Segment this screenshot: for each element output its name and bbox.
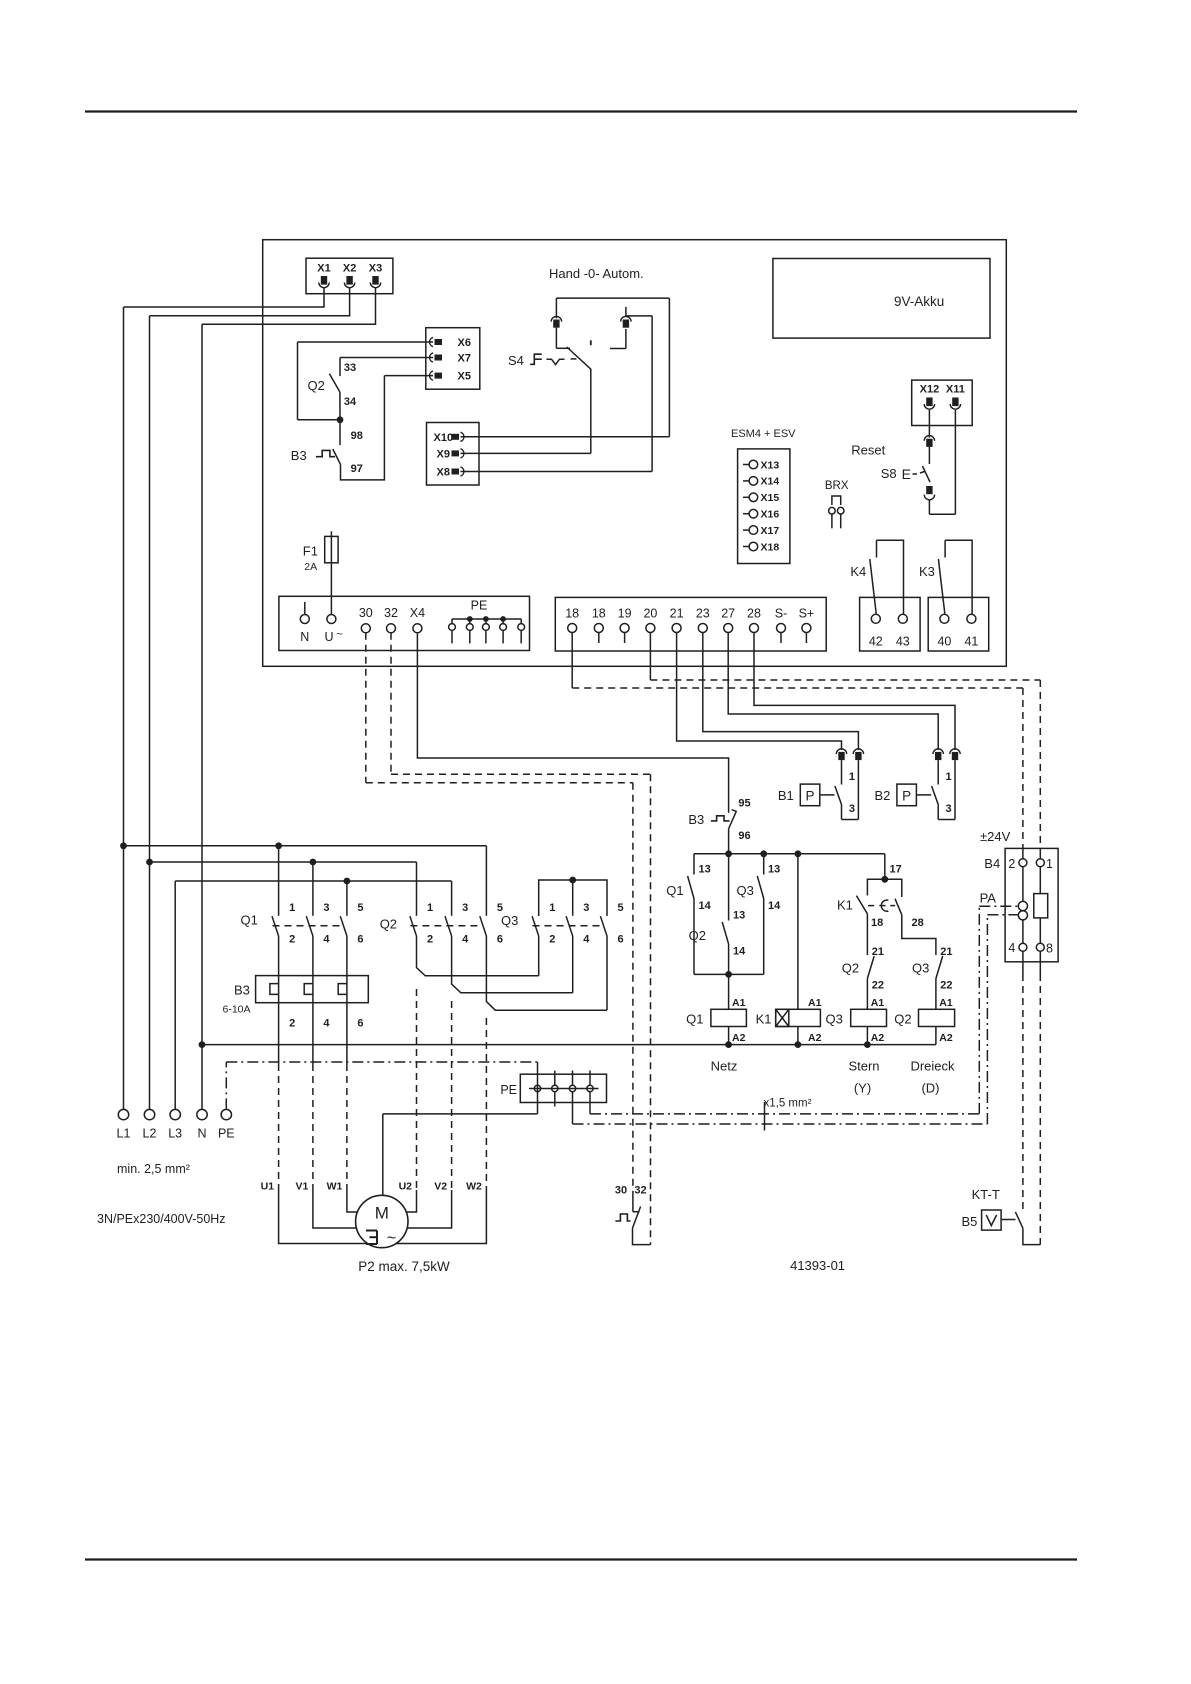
svg-text:ESM4 + ESV: ESM4 + ESV [731,428,796,440]
svg-text:X3: X3 [369,263,382,275]
svg-text:27: 27 [721,607,735,621]
svg-text:B3: B3 [234,983,250,998]
svg-text:S4: S4 [508,353,524,368]
svg-text:4: 4 [583,934,590,946]
svg-text:(D): (D) [921,1081,939,1096]
svg-text:21: 21 [670,607,684,621]
svg-text:K4: K4 [850,564,866,579]
svg-text:A1: A1 [732,997,746,1009]
svg-text:6: 6 [497,934,503,946]
svg-text:PA: PA [980,891,997,906]
svg-text:14: 14 [699,900,712,912]
svg-text:6: 6 [618,934,624,946]
svg-text:Q3: Q3 [912,961,929,976]
svg-text:13: 13 [699,864,711,876]
svg-text:34: 34 [344,396,357,408]
svg-text:2A: 2A [304,561,317,573]
svg-text:Q2: Q2 [689,928,706,943]
svg-text:18: 18 [565,607,579,621]
svg-text:43: 43 [896,635,910,649]
svg-text:K1: K1 [837,898,853,913]
svg-text:Q1: Q1 [686,1012,703,1027]
svg-text:9V-Akku: 9V-Akku [894,294,944,309]
svg-text:X9: X9 [437,448,450,460]
svg-text:B1: B1 [778,788,794,803]
svg-text:M: M [375,1204,389,1223]
svg-text:42: 42 [869,635,883,649]
svg-text:(Y): (Y) [854,1081,871,1096]
svg-text:4: 4 [323,1018,330,1030]
svg-text:3: 3 [462,902,468,914]
svg-text:A1: A1 [871,997,885,1009]
svg-text:28: 28 [747,607,761,621]
svg-text:W1: W1 [327,1181,343,1193]
svg-text:Hand -0- Autom.: Hand -0- Autom. [549,266,644,281]
svg-text:X13: X13 [761,459,780,471]
svg-text:95: 95 [738,798,750,810]
svg-text:PE: PE [471,599,488,613]
svg-text:~: ~ [336,629,342,641]
svg-text:X10: X10 [434,432,454,444]
svg-text:P2 max. 7,5kW: P2 max. 7,5kW [358,1259,450,1274]
svg-text:KT-T: KT-T [972,1187,1000,1202]
svg-text:P: P [902,789,911,804]
svg-text:X18: X18 [761,541,780,553]
svg-text:4: 4 [1008,941,1015,955]
svg-text:1: 1 [549,902,555,914]
svg-text:~: ~ [387,1230,396,1247]
svg-text:1: 1 [849,771,855,783]
svg-text:X1: X1 [317,263,330,275]
svg-text:X15: X15 [761,492,780,504]
svg-text:14: 14 [768,900,781,912]
svg-text:±24V: ±24V [980,829,1011,844]
svg-text:PE: PE [500,1083,517,1097]
svg-text:2: 2 [427,934,433,946]
svg-text:N: N [197,1127,206,1141]
svg-text:B5: B5 [962,1214,978,1229]
svg-text:X6: X6 [458,337,471,349]
svg-text:6: 6 [357,1018,363,1030]
svg-text:K3: K3 [919,564,935,579]
svg-text:U: U [324,630,333,644]
svg-text:Q3: Q3 [826,1012,843,1027]
svg-text:Q2: Q2 [894,1012,911,1027]
svg-text:8: 8 [1046,942,1053,956]
svg-text:2: 2 [289,1018,295,1030]
svg-text:B2: B2 [875,788,891,803]
svg-text:x1,5 mm²: x1,5 mm² [764,1098,812,1110]
svg-text:3: 3 [946,803,952,815]
svg-text:Q2: Q2 [380,917,397,932]
svg-text:1: 1 [1046,857,1053,871]
svg-text:Reset: Reset [851,443,885,458]
svg-text:A2: A2 [732,1032,746,1044]
svg-text:Q2: Q2 [308,378,325,393]
svg-text:13: 13 [733,910,745,922]
svg-text:Dreieck: Dreieck [910,1059,955,1074]
svg-text:20: 20 [643,607,657,621]
svg-text:22: 22 [940,980,952,992]
svg-text:22: 22 [872,980,884,992]
svg-text:BRX: BRX [825,480,849,492]
svg-text:2: 2 [289,934,295,946]
svg-text:V1: V1 [296,1181,309,1193]
svg-text:40: 40 [937,635,951,649]
svg-text:A1: A1 [939,997,953,1009]
svg-text:X11: X11 [946,384,965,396]
svg-text:6: 6 [357,934,363,946]
svg-text:18: 18 [871,917,883,929]
svg-text:33: 33 [344,362,356,374]
svg-text:PE: PE [218,1127,235,1141]
svg-text:B4: B4 [984,856,1000,871]
svg-text:S8: S8 [881,466,897,481]
svg-text:21: 21 [872,946,884,958]
svg-text:X17: X17 [761,525,780,537]
svg-text:S-: S- [775,607,788,621]
svg-text:2: 2 [1008,857,1015,871]
svg-text:Q1: Q1 [666,883,683,898]
svg-text:30: 30 [359,606,373,620]
svg-text:L1: L1 [117,1127,131,1141]
svg-text:17: 17 [890,864,902,876]
svg-text:21: 21 [940,946,952,958]
svg-text:S+: S+ [799,607,815,621]
svg-text:1: 1 [946,771,952,783]
svg-text:Netz: Netz [711,1059,738,1074]
svg-text:32: 32 [634,1185,646,1197]
svg-text:13: 13 [768,864,780,876]
svg-text:X12: X12 [920,384,940,396]
svg-text:19: 19 [618,607,632,621]
svg-text:98: 98 [351,430,363,442]
svg-text:L3: L3 [168,1127,182,1141]
svg-text:96: 96 [738,830,750,842]
svg-text:B3: B3 [688,812,704,827]
svg-text:X14: X14 [761,476,780,488]
svg-text:X7: X7 [458,353,471,365]
svg-text:Stern: Stern [848,1059,879,1074]
svg-text:6-10A: 6-10A [223,1004,251,1016]
svg-text:3: 3 [323,902,329,914]
svg-text:1: 1 [289,902,295,914]
svg-text:2: 2 [549,934,555,946]
svg-text:23: 23 [696,607,710,621]
svg-text:X16: X16 [761,509,780,521]
svg-text:3: 3 [849,803,855,815]
svg-text:min. 2,5 mm²: min. 2,5 mm² [117,1162,190,1176]
svg-text:X8: X8 [437,467,450,479]
svg-text:4: 4 [323,934,330,946]
svg-text:30: 30 [615,1185,627,1197]
svg-text:18: 18 [592,607,606,621]
svg-text:X2: X2 [343,263,356,275]
svg-text:5: 5 [618,902,624,914]
svg-text:32: 32 [384,606,398,620]
svg-text:N: N [300,630,309,644]
svg-text:Q3: Q3 [501,913,518,928]
svg-text:4: 4 [462,934,469,946]
svg-text:V2: V2 [434,1181,447,1193]
svg-text:Q3: Q3 [737,883,754,898]
svg-text:K1: K1 [756,1012,772,1027]
svg-text:5: 5 [357,902,363,914]
svg-text:U1: U1 [261,1181,275,1193]
svg-text:A2: A2 [939,1032,953,1044]
svg-text:Q1: Q1 [241,913,258,928]
svg-text:14: 14 [733,946,746,958]
svg-text:Q2: Q2 [842,961,859,976]
svg-text:X5: X5 [458,371,471,383]
svg-text:28: 28 [912,917,924,929]
svg-text:A1: A1 [808,997,822,1009]
svg-text:41: 41 [964,635,978,649]
svg-text:A2: A2 [808,1032,822,1044]
svg-text:1: 1 [427,902,433,914]
svg-text:A2: A2 [871,1032,885,1044]
svg-text:X4: X4 [410,606,425,620]
svg-text:97: 97 [351,463,363,475]
svg-text:L2: L2 [143,1127,157,1141]
svg-text:F1: F1 [303,544,318,559]
svg-text:P: P [805,789,814,804]
svg-text:U2: U2 [399,1181,413,1193]
svg-text:B3: B3 [291,448,307,463]
svg-text:3N/PEx230/400V-50Hz: 3N/PEx230/400V-50Hz [97,1212,226,1226]
svg-text:3: 3 [583,902,589,914]
svg-text:E: E [902,466,911,482]
svg-text:W2: W2 [466,1181,482,1193]
svg-text:41393-01: 41393-01 [790,1258,845,1273]
